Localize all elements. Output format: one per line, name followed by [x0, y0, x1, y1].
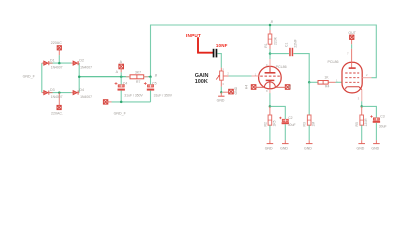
capacitor C1 22NF — [285, 39, 298, 56]
wire: bridge left vertical (GND_F net) — [41, 63, 43, 93]
screen pin to right — [362, 77, 371, 79]
svg-text:1M: 1M — [312, 122, 316, 127]
node R1/C1/plate junction — [269, 52, 272, 55]
diode D3 — [42, 88, 63, 99]
resistor R7 3K7 — [126, 70, 148, 83]
pad 220AC bottom — [51, 93, 63, 116]
svg-text:GND: GND — [357, 146, 365, 150]
wire: C1 to grid node — [293, 54, 309, 83]
pad 220AC top — [51, 41, 62, 50]
svg-text:1K5: 1K5 — [272, 120, 276, 126]
diode D4 — [71, 88, 92, 99]
wire: diode row top — [44, 62, 72, 64]
capacitor C4 — [115, 77, 144, 102]
node A junction — [120, 76, 123, 79]
capacitor C5 — [144, 77, 173, 102]
capacitor 10NF (input coupling, black) — [213, 43, 228, 58]
node B top junction — [269, 24, 272, 27]
resistor R4 1K (grid stopper) — [309, 76, 342, 89]
svg-text:1N4007: 1N4007 — [51, 66, 63, 70]
grid dashes — [260, 75, 280, 77]
svg-text:R3: R3 — [303, 122, 307, 126]
wire: junction to C1 — [270, 53, 289, 55]
heater strokes — [264, 82, 275, 87]
ground under C3 — [371, 140, 379, 150]
wire: bridge right vertical — [78, 63, 80, 93]
svg-text:1N4007: 1N4007 — [80, 66, 92, 70]
svg-text:D2: D2 — [79, 58, 84, 62]
svg-text:22NF: 22NF — [294, 39, 298, 47]
heater pad H1 (left) — [245, 85, 265, 90]
svg-text:GND: GND — [280, 146, 288, 150]
svg-text:R5: R5 — [355, 122, 359, 126]
svg-text:GND: GND — [217, 99, 225, 103]
ground under R5 — [357, 140, 366, 150]
svg-text:GND_F: GND_F — [114, 111, 127, 115]
svg-text:3K7: 3K7 — [135, 70, 141, 74]
wire: input thick red — [197, 37, 214, 52]
svg-text:10NF: 10NF — [216, 43, 228, 48]
svg-text:GND: GND — [265, 146, 273, 150]
svg-text:GND: GND — [371, 146, 379, 150]
pad OUT — [348, 31, 356, 40]
potentiometer GAIN — [216, 67, 229, 93]
svg-text:PCL86: PCL86 — [276, 65, 287, 69]
svg-text:PCL86: PCL86 — [328, 60, 339, 64]
diode D1 — [42, 58, 63, 69]
svg-text:OUT: OUT — [348, 31, 356, 35]
node pentode cathode junction — [360, 105, 363, 108]
svg-text:120R: 120R — [364, 118, 368, 127]
resistor R2 (triode cathode) — [263, 106, 276, 140]
ground under R3 — [304, 140, 313, 150]
svg-text:100K: 100K — [195, 79, 208, 85]
svg-text:C1: C1 — [285, 43, 289, 47]
wire: top B+ rail from node B vertical to right side — [151, 25, 377, 78]
svg-text:H4: H4 — [245, 85, 249, 89]
svg-text:31uF / 350V: 31uF / 350V — [154, 93, 173, 97]
resistor R3 1M (grid leak) — [303, 82, 316, 140]
svg-text:31uF / 350V: 31uF / 350V — [124, 93, 143, 97]
svg-text:220AC.: 220AC. — [51, 111, 63, 115]
resistor R1 220K — [264, 25, 278, 54]
svg-text:H5: H5 — [288, 85, 292, 89]
svg-text:220K: 220K — [273, 36, 277, 45]
plate pin from OUT — [351, 39, 353, 68]
node B junction (main row) — [149, 76, 152, 79]
wire: diode row bottom — [49, 92, 71, 94]
svg-text:R1: R1 — [264, 43, 268, 47]
svg-text:R7: R7 — [136, 80, 140, 84]
svg-text:D1: D1 — [50, 58, 55, 62]
pad A — [116, 60, 124, 77]
node pot bottom junction — [220, 91, 223, 94]
svg-text:GND_F: GND_F — [23, 74, 36, 78]
svg-text:C4: C4 — [123, 81, 128, 85]
heater pad H2 (right) — [275, 85, 292, 90]
svg-text:1N4007: 1N4007 — [80, 95, 92, 99]
wire: cap to pot — [218, 54, 222, 68]
pentode PCL86 (right tube) — [328, 39, 372, 106]
wire: top AC stub — [58, 50, 60, 55]
svg-text:R4: R4 — [325, 85, 329, 89]
triode PCL86 (left tube) — [252, 54, 287, 107]
node triode cathode junction — [269, 105, 272, 108]
ground under R2 — [265, 140, 274, 150]
pad GND (chassis) — [223, 86, 238, 94]
svg-text:1N4007: 1N4007 — [51, 95, 63, 99]
cathode — [266, 79, 275, 81]
wire: wiper to triode grid — [229, 75, 252, 77]
wire: GND_F row under caps — [108, 101, 112, 103]
diode D2 — [71, 58, 92, 69]
ground at pot — [217, 92, 225, 102]
node 220AC bottom junction — [58, 91, 61, 94]
svg-text:1K: 1K — [324, 76, 329, 80]
svg-text:D4: D4 — [79, 88, 84, 92]
wire: bridge output row to node B — [79, 76, 150, 78]
svg-text:GND: GND — [304, 146, 312, 150]
svg-text:INPUT: INPUT — [186, 33, 201, 38]
svg-text:D3: D3 — [50, 88, 55, 92]
resistor R5 (pentode cathode) — [355, 106, 368, 140]
plate pin — [269, 54, 271, 59]
pad GND_F — [103, 100, 126, 116]
svg-text:C5: C5 — [152, 81, 157, 85]
node bridge output junction — [78, 76, 81, 79]
svg-text:30uF: 30uF — [288, 123, 296, 127]
svg-text:30uF: 30uF — [379, 124, 387, 128]
node C4 bottom junction — [120, 101, 123, 104]
grid rows — [345, 72, 359, 74]
node pentode grid junction — [308, 81, 311, 84]
svg-text:GAIN: GAIN — [195, 73, 209, 79]
svg-text:C2: C2 — [288, 116, 292, 120]
svg-text:R2: R2 — [263, 122, 267, 126]
cathode — [346, 87, 362, 90]
capacitor C2 (cathode bypass) — [270, 106, 296, 140]
capacitor C3 (pentode cathode bypass) — [362, 106, 387, 140]
node 220AC top junction — [58, 62, 61, 65]
svg-text:GND: GND — [234, 86, 238, 94]
svg-text:220AC: 220AC — [51, 41, 62, 45]
ground under C2 — [280, 140, 289, 150]
svg-text:C3: C3 — [380, 114, 384, 118]
